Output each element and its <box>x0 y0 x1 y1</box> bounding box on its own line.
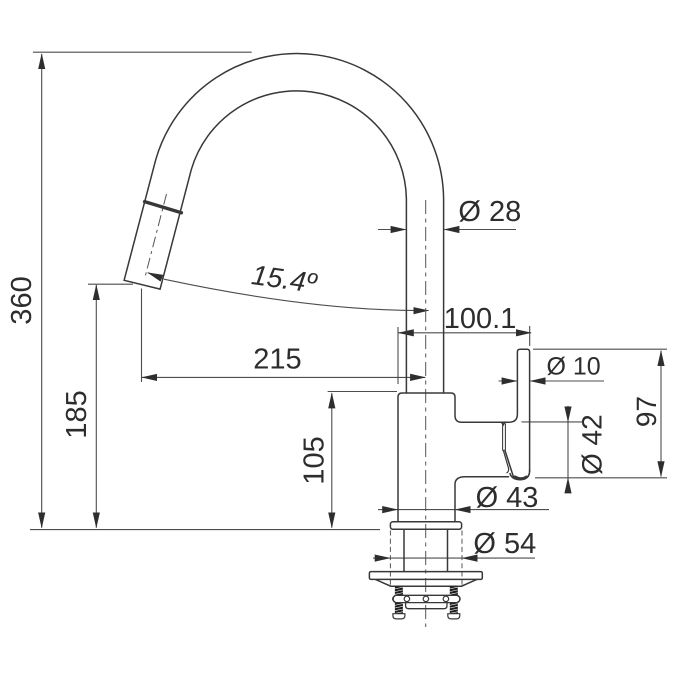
spout inner edge <box>160 91 406 393</box>
left bolt lower thread <box>395 603 403 614</box>
dimension diameter 42 top arrow <box>567 406 569 422</box>
shank left edge <box>403 529 405 571</box>
dimension 185 <box>95 285 97 528</box>
svg-text:100.1: 100.1 <box>444 303 517 335</box>
svg-text:185: 185 <box>61 390 93 438</box>
spray head joint line (thick) <box>145 202 182 213</box>
svg-text:105: 105 <box>299 436 331 484</box>
bottom extension line (97 and 42) <box>535 477 667 479</box>
thread hatching <box>395 587 458 613</box>
diameter 54 left dashed extension <box>389 531 391 587</box>
dimension diameter 28 right arrow <box>444 229 516 231</box>
dimension 360 <box>41 54 43 528</box>
faucet part outlines <box>124 53 530 586</box>
97 top extension line (lever top) <box>533 348 667 350</box>
top reference line (360 top) <box>33 51 252 53</box>
outlet dark crescent <box>515 477 527 479</box>
spout outer edge (gooseneck) <box>124 53 444 393</box>
dimension 105 <box>331 393 333 527</box>
215 left extension line <box>141 289 143 383</box>
shank right edge <box>447 529 449 571</box>
105 top reference line <box>328 391 397 393</box>
centerlines <box>145 194 425 627</box>
dimension 215 <box>142 376 425 378</box>
dimension 100.1 <box>399 332 531 334</box>
clamp bar end notch right <box>458 596 461 601</box>
clamp bar hole left <box>404 596 410 602</box>
svg-text:Ø 10: Ø 10 <box>546 353 600 381</box>
right bolt lower thread <box>450 603 458 614</box>
spray head centerline <box>145 194 166 276</box>
escutcheon flange <box>390 522 461 530</box>
svg-text:215: 215 <box>253 344 301 376</box>
counter baseline <box>30 529 380 531</box>
diameter 43 line between extension lines <box>398 509 455 511</box>
dimension diameter 28 left arrow <box>378 229 406 231</box>
clamp bar hole center <box>423 596 429 602</box>
svg-text:Ø 28: Ø 28 <box>458 196 521 228</box>
100.1 right extension line <box>529 326 531 346</box>
spray head bottom edge <box>124 280 160 289</box>
clamp bar <box>393 595 460 602</box>
svg-text:Ø 43: Ø 43 <box>476 482 539 514</box>
dashed extension lines diameter 54 <box>390 531 462 587</box>
lever lower rounded end <box>510 470 530 480</box>
diameter 54 line between extension lines <box>390 557 462 559</box>
clamp bar end notch left <box>393 596 396 601</box>
mounting plate <box>369 572 482 580</box>
cartridge double line right <box>504 424 506 450</box>
left bolt upper thread <box>395 586 403 595</box>
dimension diameter 10 left arrow <box>499 380 517 382</box>
main vertical centerline <box>425 200 427 627</box>
dimension diameter 10 right arrow with line <box>530 380 604 382</box>
dimension diameter 54 right arrow with line <box>462 557 535 559</box>
svg-text:Ø 42: Ø 42 <box>577 414 608 475</box>
cartridge inner hook <box>503 450 508 473</box>
diameter 54 right dashed extension <box>461 531 463 587</box>
right bolt upper thread <box>450 586 458 595</box>
cartridge notch <box>502 422 505 425</box>
svg-text:97: 97 <box>631 396 662 427</box>
angle arc left arrow <box>148 273 164 279</box>
dimension diameter 43 left arrow <box>378 509 397 511</box>
clamp bar hole right <box>443 596 449 602</box>
185 top reference line <box>88 283 133 285</box>
angle dimension arc 15.4 <box>164 279 429 310</box>
mounting plate lower boss <box>376 580 477 587</box>
svg-text:360: 360 <box>6 276 38 324</box>
dimension diameter 42 bottom arrow <box>567 478 569 493</box>
diameter 42 top extension line <box>522 421 584 423</box>
cartridge diagonal <box>505 450 514 477</box>
dimension labels <box>6 196 662 560</box>
100.1 left extension line <box>397 327 399 384</box>
dimension 97 <box>660 351 662 477</box>
right dome nut <box>448 614 460 619</box>
body lower right fillet <box>455 477 509 522</box>
left dome nut <box>393 614 405 619</box>
hose guide rectangle <box>406 603 447 609</box>
dimension diameter 43 right arrow with line <box>455 509 549 511</box>
body and lever outline <box>398 349 530 521</box>
diameter 42 line between <box>567 422 569 478</box>
cartridge double line left <box>502 424 504 450</box>
dimension diameter 54 left arrow <box>373 557 390 559</box>
mounting hardware <box>393 586 461 619</box>
svg-text:Ø 54: Ø 54 <box>473 528 536 560</box>
